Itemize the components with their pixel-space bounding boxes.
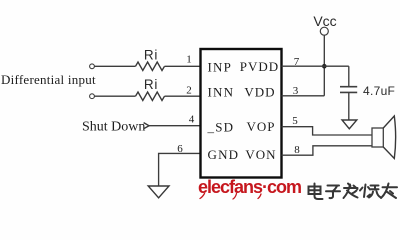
wire pin6 bbox=[159, 153, 201, 186]
svg-text:6: 6 bbox=[177, 143, 183, 155]
resistor R2 Ri bbox=[136, 77, 165, 101]
wire bbox=[149, 125, 201, 127]
wire pin8 bbox=[282, 146, 373, 155]
svg-text:INN: INN bbox=[208, 85, 235, 100]
char shao bbox=[360, 185, 381, 198]
wire bbox=[94, 65, 135, 67]
terminal input - bbox=[90, 94, 95, 99]
svg-text:Shut Down: Shut Down bbox=[82, 120, 145, 135]
op-amp U1 (class-D amplifier IC) bbox=[201, 49, 282, 178]
svg-text:_SD: _SD bbox=[207, 120, 235, 135]
svg-text:VON: VON bbox=[245, 147, 276, 162]
char zi bbox=[326, 186, 340, 199]
wire pin5 bbox=[282, 127, 373, 135]
input arrow bbox=[144, 123, 149, 129]
wire bbox=[323, 35, 325, 96]
ground G2 bbox=[342, 120, 357, 129]
svg-text:Ri: Ri bbox=[144, 77, 158, 92]
svg-text:Ri: Ri bbox=[144, 48, 158, 63]
char fa bbox=[344, 184, 358, 199]
terminal input + bbox=[90, 64, 95, 69]
svg-text:3: 3 bbox=[293, 85, 299, 97]
svg-text:Vcc: Vcc bbox=[313, 13, 336, 29]
svg-text:2: 2 bbox=[186, 85, 192, 97]
svg-text:PVDD: PVDD bbox=[240, 59, 279, 74]
watermark logo elecfans.com bbox=[198, 177, 301, 199]
svg-text:GND: GND bbox=[208, 147, 240, 162]
svg-text:1: 1 bbox=[186, 54, 192, 66]
resistor R1 Ri bbox=[136, 48, 165, 71]
wire pin3 bbox=[282, 95, 325, 97]
wire bbox=[165, 95, 201, 97]
capacitor C1 4.7uF bbox=[340, 66, 395, 120]
svg-text:4: 4 bbox=[189, 114, 195, 126]
svg-text:Differential input: Differential input bbox=[1, 72, 96, 87]
svg-text:8: 8 bbox=[294, 144, 300, 156]
svg-text:INP: INP bbox=[208, 60, 233, 75]
wire pin7 bbox=[282, 65, 349, 67]
svg-text:elecfans·com: elecfans·com bbox=[198, 177, 301, 197]
wire bbox=[94, 95, 135, 97]
watermark Chinese text (drawn strokes) bbox=[309, 184, 398, 200]
ground G1 bbox=[148, 186, 169, 198]
svg-text:VDD: VDD bbox=[244, 85, 275, 100]
svg-text:5: 5 bbox=[292, 115, 298, 127]
svg-text:7: 7 bbox=[294, 56, 300, 68]
svg-text:4.7uF: 4.7uF bbox=[363, 84, 395, 98]
char dian bbox=[309, 184, 323, 200]
wire bbox=[165, 65, 201, 67]
char you bbox=[381, 184, 397, 199]
supply Vcc bbox=[313, 13, 336, 35]
junction bbox=[322, 64, 327, 69]
speaker LS1 bbox=[372, 116, 396, 159]
svg-text:VOP: VOP bbox=[246, 119, 275, 134]
